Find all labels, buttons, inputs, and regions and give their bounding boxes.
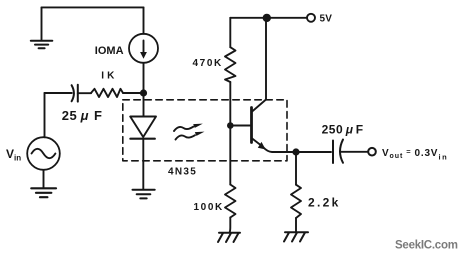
5V terminal (open circle)	[307, 14, 315, 22]
svg-text:IK: IK	[101, 71, 117, 82]
svg-text:Vout=0.3Vin: Vout=0.3Vin	[382, 147, 448, 162]
wire node C to capacitor C2	[296, 151, 331, 153]
light arrow lower	[176, 132, 205, 140]
ground (under 100K, rake style)	[218, 233, 240, 242]
wire Vin to ground	[43, 170, 45, 188]
ground (under Vin, 3-bar)	[31, 188, 56, 197]
LED D1 (triangle)	[130, 117, 156, 138]
wire 470K down through node B to 100k	[229, 82, 231, 185]
resistor R1 1K (horizontal zigzag)	[91, 89, 123, 97]
optocoupler 4N35 dashed box	[123, 100, 287, 161]
LED cathode bar	[130, 138, 154, 140]
wire left vertical (ground to top rail)	[41, 7, 43, 39]
svg-text:IOMA: IOMA	[95, 45, 124, 57]
node A (junction dot)	[140, 89, 147, 96]
node D (junction dot at 5V rail)	[263, 14, 271, 22]
wire left rail corner down to Vin	[44, 93, 46, 137]
wire 100K to ground	[229, 218, 232, 233]
svg-text:Vin: Vin	[6, 147, 21, 163]
transistor Q1 base bar	[250, 108, 253, 143]
svg-text:250μF: 250μF	[322, 122, 364, 136]
light arrow upper	[174, 124, 203, 131]
Vout terminal (open circle)	[368, 148, 376, 156]
resistor R2 470K (vertical zigzag)	[225, 47, 236, 82]
wire LED cathode to ground	[142, 139, 144, 190]
svg-text:SeekIC.com: SeekIC.com	[395, 239, 458, 251]
wire left rail to capacitor	[45, 92, 72, 94]
svg-text:470K: 470K	[193, 58, 223, 69]
capacitor C2 250uF (straight + curved plate)	[333, 140, 343, 164]
ground (top-left, 3-bar)	[31, 41, 53, 48]
capacitor C1 25uF (curved + straight plate)	[72, 85, 78, 102]
transistor Q1 collector diagonal	[252, 100, 267, 113]
svg-text:2.2k: 2.2k	[308, 196, 341, 210]
current source 10MA (circle with down arrow)	[129, 34, 158, 63]
wire current source to node A	[143, 63, 145, 90]
wire emitter to node C	[264, 148, 293, 153]
svg-text:100K: 100K	[194, 202, 224, 213]
wire down to current source	[143, 7, 145, 33]
wire node C to 2.2k	[295, 152, 297, 185]
wire base	[230, 125, 250, 127]
wire capacitor to output terminal	[341, 151, 368, 153]
node C (junction dot, emitter node)	[292, 148, 299, 155]
wire top horizontal rail	[42, 6, 144, 8]
resistor R4 2.2k (vertical zigzag)	[291, 185, 301, 218]
wire node A to LED anode	[143, 93, 145, 117]
wire 2.2k to ground	[295, 218, 297, 232]
wire top rail to 470K	[229, 18, 231, 47]
Vin source (AC circle)	[27, 137, 60, 170]
svg-text:25μF: 25μF	[62, 108, 103, 123]
wire collector to top rail	[265, 18, 267, 100]
transistor Q1 emitter diagonal with arrow	[252, 138, 266, 150]
wire capacitor to resistor	[78, 92, 91, 94]
ground (under 2.2k, rake style)	[284, 232, 308, 241]
wire top rail to 5V terminal	[230, 17, 306, 19]
node B (junction dot, base node)	[227, 122, 234, 129]
resistor R3 100K (vertical zigzag)	[225, 185, 236, 218]
wire resistor to node A	[123, 92, 144, 94]
svg-text:5V: 5V	[320, 13, 333, 24]
ground (under LED, 3-bar)	[133, 190, 155, 199]
svg-text:4N35: 4N35	[168, 167, 197, 178]
